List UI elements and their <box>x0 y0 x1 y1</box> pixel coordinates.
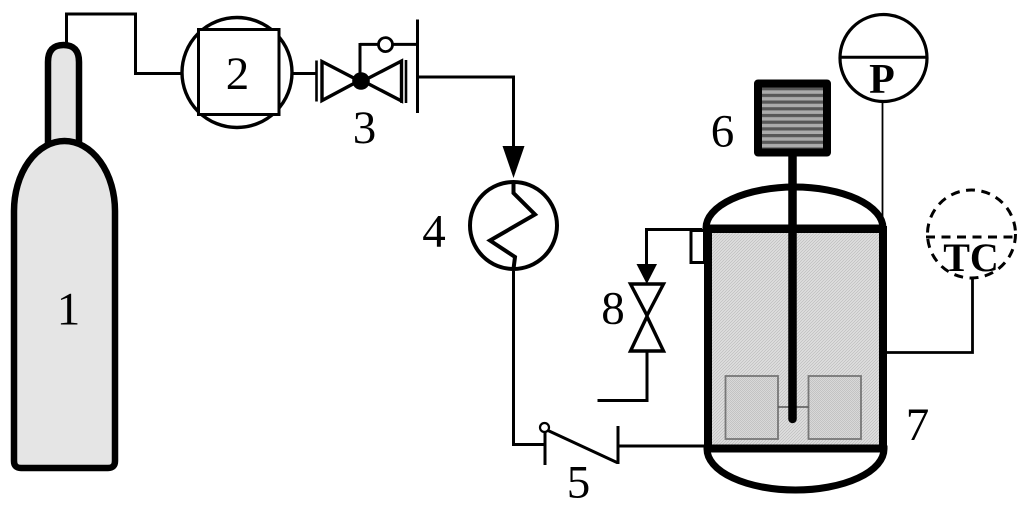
valve 3 end plate <box>416 20 419 114</box>
valve 3 pilot circle <box>379 38 393 52</box>
stirrer shaft <box>788 124 797 419</box>
svg-text:6: 6 <box>711 106 735 158</box>
valve 3 left triangle <box>322 62 359 101</box>
gas cylinder 1 neck <box>48 45 79 150</box>
valve 3 left end bars <box>315 61 318 102</box>
valve 8 outlet wire <box>598 351 648 401</box>
svg-text:8: 8 <box>601 283 625 335</box>
reactor 7 interior hatch <box>708 230 879 446</box>
pump U2 circle <box>182 18 292 128</box>
svg-text:P: P <box>869 57 895 103</box>
svg-text:5: 5 <box>567 457 591 509</box>
svg-text:3: 3 <box>353 102 377 154</box>
valve 3 right end bars <box>400 60 403 103</box>
wire reactor 7 to TC <box>885 278 973 353</box>
svg-text:2: 2 <box>226 48 250 100</box>
heat exchanger 4 circle <box>470 182 557 269</box>
switch 5 blade <box>548 431 617 463</box>
wire from cylinder 1 to pump 2 <box>67 14 183 74</box>
valve 8 top triangle <box>631 284 664 316</box>
svg-text:1: 1 <box>57 284 81 336</box>
switch 5 right post <box>617 426 620 464</box>
valve 3 right triangle <box>363 61 402 101</box>
pump U2 square <box>199 30 280 115</box>
impeller block right <box>809 376 862 439</box>
valve 3 stem riser <box>359 43 362 81</box>
motor 6 body <box>758 84 827 153</box>
pressure gauge P stem <box>882 102 884 227</box>
reactor 7 top flange line <box>704 226 886 233</box>
pressure gauge P circle <box>840 15 927 102</box>
switch 5 left post <box>544 430 547 465</box>
valve 3 stem dot <box>352 72 370 90</box>
flow arrow into valve 8 <box>637 264 658 284</box>
pressure gauge P dividing line <box>839 56 929 59</box>
gas cylinder 1 body <box>14 141 115 468</box>
wire switch 5 to reactor 7 <box>618 445 706 448</box>
reactor 7 right wall <box>879 226 887 450</box>
svg-text:TC: TC <box>943 235 999 280</box>
svg-text:7: 7 <box>906 399 930 451</box>
temperature controller TC dashed dividing line <box>926 236 1017 239</box>
valve 3 pilot line left <box>360 43 379 46</box>
wire pump 2 to valve 3 <box>292 72 317 75</box>
heat exchanger 4 zigzag <box>490 183 535 270</box>
wire reactor 7 to valve 8 <box>647 230 703 269</box>
valve 3 pilot line right <box>393 43 418 46</box>
reactor 7 bottom dome <box>707 449 884 490</box>
reactor 7 inlet nozzle tab <box>691 231 705 263</box>
reactor 7 top dome <box>706 187 883 228</box>
reactor 7 bottom flange line <box>704 445 886 452</box>
svg-text:4: 4 <box>422 206 446 258</box>
valve 8 bottom triangle <box>631 317 664 352</box>
reactor 7 left wall <box>704 226 712 450</box>
switch 5 pivot circle <box>540 423 549 432</box>
flow arrow into heat exchanger <box>503 146 525 178</box>
wire valve 3 to heat exchanger 4 <box>418 77 514 150</box>
temperature controller TC dashed circle <box>928 190 1016 278</box>
impeller block left <box>726 376 779 439</box>
wire heat exchanger 4 to switch 5 <box>514 271 546 445</box>
impeller connecting bar <box>778 406 809 408</box>
